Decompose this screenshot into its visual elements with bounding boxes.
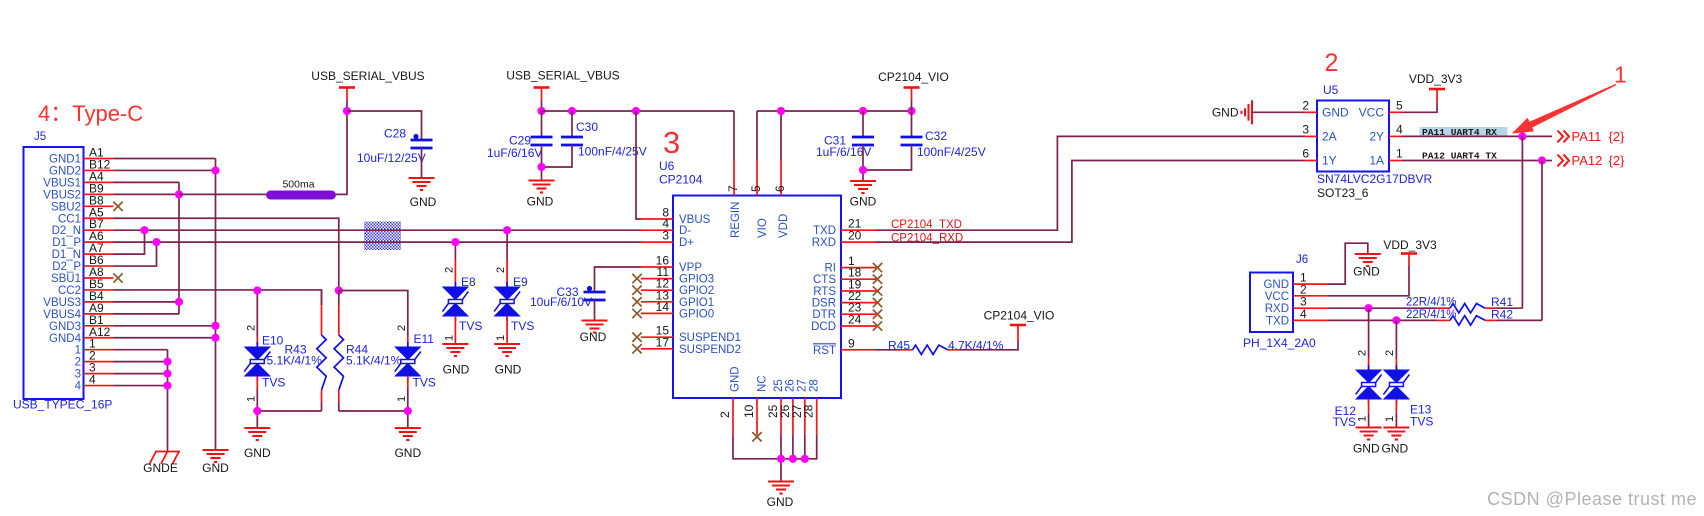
svg-text:GND: GND [394,446,421,460]
resistor R44 5.1K/4/1% [338,291,340,306]
svg-text:10: 10 [742,404,756,418]
svg-text:VCC: VCC [1359,106,1385,120]
junction RXD E12 [1365,304,1373,312]
svg-text:6: 6 [773,185,787,192]
svg-text:D2_N: D2_N [52,225,81,237]
U5 pin 1 1A [1389,160,1402,162]
J5 pin B12 GND2 stub [84,169,114,171]
svg-text:5.1K/4/1%: 5.1K/4/1% [267,354,323,368]
ground symbol under U6 [768,482,794,494]
svg-text:4: 4 [75,381,82,393]
capacitor C33 10uF/6/10V [584,292,606,300]
wire CC2 rail to E10 [256,291,258,337]
svg-text:CP2104_VIO: CP2104_VIO [984,309,1055,323]
capacitor C31 1uF/6/16V [862,111,864,137]
U6 pin 7 REGIN [733,160,735,196]
J6 pin 1 GND [1293,283,1328,285]
U6 pin 21 TXD [841,229,876,231]
U6 pin 1 RI [841,267,876,269]
U5 pin 4 2Y [1389,135,1402,137]
wire VBUS drop to U6 pin 8 [636,111,641,219]
wire C31 C32 bottoms to ground [862,145,864,181]
wire PA12 down to R42 [1541,161,1543,321]
wire CP2104_TXD to U5 pin 3 [876,136,1305,230]
svg-text:1uF/6/16V: 1uF/6/16V [487,146,542,160]
junction CP2104_VIO top [907,107,915,115]
wire J5 shell pin 2 to GNDE vertical [114,361,168,363]
wire U5 pin 1 to PA12 port [1402,160,1552,162]
svg-text:{2}: {2} [1609,153,1626,168]
svg-text:3: 3 [662,229,669,243]
U6 pin 6 VDD [780,160,782,196]
junction B4 VBUS [175,298,183,306]
wire J5 shell pin 4 to GNDE vertical [114,385,168,387]
TVS diode E13 [1395,320,1397,358]
svg-text:22R/4/1%: 22R/4/1% [1406,309,1457,321]
wire CC2 B5 to R43 [114,290,322,305]
svg-text:TVS: TVS [262,376,285,390]
J6 pin 3 RXD [1293,307,1328,309]
svg-text:CP2104_VIO: CP2104_VIO [878,70,949,84]
svg-text:TVS: TVS [459,319,482,333]
svg-text:7: 7 [726,185,740,192]
svg-text:D1_N: D1_N [52,249,81,261]
wire VPP to C33 [612,266,641,268]
U6 pin 26 26 [792,398,794,435]
junction VDD [777,107,785,115]
svg-text:VBUS2: VBUS2 [43,189,81,201]
wire D+ line A6 to U6 pin 3 [114,241,642,243]
svg-text:4: 4 [89,373,96,387]
svg-text:VPP: VPP [679,262,702,274]
svg-text:USB_SERIAL_VBUS: USB_SERIAL_VBUS [506,69,619,83]
svg-text:2: 2 [495,267,507,273]
wire C28 to ground [421,148,423,178]
junction B12 GND [211,166,219,174]
wire PA11 down to R41 [1521,136,1523,308]
no-connect X on U6 pin 10 NC [752,432,761,441]
wire VDD_3V3 to U5 pin 5 [1402,103,1437,112]
svg-text:GND: GND [730,366,742,392]
ground symbol under E8 [442,344,468,356]
svg-text:3: 3 [663,125,680,160]
svg-text:1: 1 [396,396,408,402]
svg-text:14: 14 [656,300,670,314]
svg-text:VBUS4: VBUS4 [43,309,81,321]
TVS diode E9 on D- [506,230,508,260]
svg-text:TVS: TVS [1333,415,1356,429]
svg-text:4: 4 [1396,123,1403,137]
svg-text:GND: GND [580,330,607,344]
svg-text:CSDN @Please trust me: CSDN @Please trust me [1487,489,1697,509]
U6 pin 27 27 [804,398,806,435]
svg-text:C30: C30 [576,120,598,134]
no-connect X on J5 pin A8 SBU1 [113,273,122,282]
svg-text:2: 2 [1302,99,1309,113]
wire GND4 A12 to GND vertical [114,337,216,339]
svg-text:TXD: TXD [1266,315,1289,327]
svg-text:CP2104_TXD: CP2104_TXD [891,219,962,231]
svg-text:D+: D+ [679,237,694,249]
junction TXD E13 [1392,316,1400,324]
svg-text:9: 9 [848,336,855,350]
svg-text:TVS: TVS [413,376,436,390]
wire rail VIO VDD to C32 [757,110,912,112]
wire CC1 rail to E11 [339,291,408,337]
svg-text:17: 17 [656,335,670,349]
wire VBUS3 B4 to VBUS vertical [114,301,180,303]
svg-text:RST: RST [813,345,836,357]
svg-text:28: 28 [802,404,816,418]
junction C31 top [859,107,867,115]
capacitor C32 100nF/4/25V [911,111,913,137]
svg-text:RI: RI [825,263,837,275]
wire CP2104_RXD to U5 pin 6 [876,161,1305,243]
annotation arrow 1 [1512,84,1617,134]
IC U6 CP2104 body [673,196,841,399]
svg-text:GPIO3: GPIO3 [679,274,714,286]
svg-text:J5: J5 [34,131,46,143]
svg-text:10uF/6/10V: 10uF/6/10V [530,295,592,309]
svg-text:PA11 UART4 RX: PA11 UART4 RX [1422,127,1497,138]
wire GND3 B1 to GND vertical [114,325,216,327]
J5 pin 2 2 stub [84,361,114,363]
U6 pin 15 SUSPEND1 [641,336,673,338]
J5 pin B1 GND3 stub [84,325,114,327]
wire U6 ground pins rail [733,435,817,459]
U6 pin 13 GPIO1 [641,301,673,303]
port PA11 [1558,131,1570,143]
svg-text:J6: J6 [1296,254,1308,266]
junction E10 bottom [253,407,261,415]
svg-text:3: 3 [75,369,81,381]
svg-text:C32: C32 [925,129,947,143]
wire D- line B7 to U6 pin 4 [114,229,642,231]
svg-text:1: 1 [246,396,258,402]
svg-text:1Y: 1Y [1322,154,1337,168]
svg-text:2: 2 [1325,49,1339,77]
svg-text:CC1: CC1 [58,213,81,225]
svg-text:VCC: VCC [1265,291,1289,303]
capacitor C29 1uF/6/16V [541,111,543,137]
wire CC1 A5 to R44/E11 rail [114,218,339,290]
resistor R43 5.1K/4/1% [321,290,323,305]
svg-text:PA12: PA12 [1572,153,1603,168]
svg-text:DCD: DCD [811,321,836,333]
connector J5 USB Type-C body [24,147,84,399]
svg-text:E9: E9 [513,275,528,289]
svg-text:SN74LVC2G17DBVR: SN74LVC2G17DBVR [1317,172,1433,186]
junction D- jog [140,226,148,234]
svg-text:REGIN: REGIN [730,202,742,238]
svg-text:D-: D- [679,225,691,237]
svg-text:6: 6 [1302,147,1309,161]
J5 pin A7 D1_N stub [84,253,114,255]
U6 RST overline [813,343,836,345]
J5 pin B9 VBUS2 stub [84,193,114,195]
J5 pin A4 VBUS1 stub [84,181,114,183]
wire C33 to ground [594,300,596,321]
svg-text:E11: E11 [414,332,435,346]
svg-text:5.1K/4/1%: 5.1K/4/1% [346,354,402,368]
ground symbol under E11 [395,428,421,440]
svg-text:2: 2 [246,325,258,331]
J6 pin 2 VCC [1293,295,1328,297]
svg-text:SUSPEND1: SUSPEND1 [679,332,741,344]
svg-text:GND: GND [202,461,229,475]
wire C29 C30 bottoms to ground [541,145,543,181]
U6 pin 11 GPIO3 [641,278,673,280]
svg-text:2: 2 [1357,350,1369,356]
svg-text:GND: GND [443,363,470,377]
svg-text:GND4: GND4 [49,333,82,345]
svg-text:CTS: CTS [813,274,836,286]
svg-text:VDD_3V3: VDD_3V3 [1383,238,1437,252]
wire VBUS to ferrite bead [179,193,266,195]
svg-text:RXD: RXD [1265,303,1289,315]
svg-text:C28: C28 [384,127,406,141]
junction pin25 rail [777,455,785,463]
svg-text:VBUS1: VBUS1 [43,177,81,189]
svg-text:VDD: VDD [778,214,790,238]
wire J6 pin3 to R41 [1328,307,1437,309]
junction PA12 [1538,156,1546,164]
svg-text:28: 28 [809,379,821,392]
wire J6 pin1 to ground [1328,243,1368,284]
svg-text:GNDE: GNDE [143,461,178,475]
wire ferrite bead to USB_SERIAL_VBUS [336,111,347,194]
U6 pin 9 RST [841,349,876,351]
svg-text:2: 2 [444,267,456,273]
J5 pin B4 VBUS3 stub [84,301,114,303]
svg-text:27: 27 [797,379,809,392]
wire VBUS2 B9 to VBUS vertical [114,193,180,195]
svg-text:CP2104: CP2104 [659,173,703,187]
svg-text:22R/4/1%: 22R/4/1% [1406,297,1457,309]
svg-text:GND: GND [527,195,554,209]
junction E11 bottom [404,407,412,415]
wire U5 pin 4 to PA11 port [1402,135,1552,137]
J5 pin B6 D2_P stub [84,265,114,267]
svg-text:4: 4 [1300,307,1307,321]
wire R44 E11 bottom rail [339,410,408,412]
svg-text:100nF/4/25V: 100nF/4/25V [917,145,986,159]
svg-text:GND1: GND1 [49,154,81,166]
wire GNDE vertical [167,350,169,452]
U6 pin 28 28 [816,398,818,435]
ground symbol under C28 [409,178,435,190]
connector J6 body [1250,273,1293,333]
svg-text:VBUS3: VBUS3 [43,297,81,309]
wire VBUS vertical bus [178,182,180,313]
svg-text:GPIO0: GPIO0 [679,308,714,320]
wire rail to C28 [347,111,422,140]
svg-text:R45: R45 [888,339,910,353]
ferrite bead FB 500ma [266,191,336,200]
svg-text:SBU2: SBU2 [51,201,81,213]
svg-text:USB_SERIAL_VBUS: USB_SERIAL_VBUS [311,69,424,83]
svg-text:1: 1 [1614,62,1627,88]
wire J5 shell pin 1 to GNDE vertical [114,349,168,351]
junction C30 top [568,107,576,115]
svg-text:GND: GND [1353,265,1380,279]
svg-text:PA12 UART4 TX: PA12 UART4 TX [1422,151,1497,162]
wire R41 to PA11 vertical [1497,307,1522,309]
U6 pin 10 NC [756,398,758,435]
junction E10 top [253,286,261,294]
svg-text:E10: E10 [262,334,284,348]
U6 pin 19 RTS [841,290,876,292]
svg-text:20: 20 [848,229,862,243]
capacitor C30 100nF/4/25V [571,111,573,137]
svg-text:SOT23_6: SOT23_6 [1317,186,1369,200]
svg-text:PH_1X4_2A0: PH_1X4_2A0 [1243,336,1316,350]
svg-text:E8: E8 [461,275,476,289]
port PA12 [1558,155,1570,167]
J5 pin 3 3 stub [84,373,114,375]
svg-text:GND: GND [244,446,271,460]
svg-text:25: 25 [773,379,785,392]
TVS diode E12 [1368,308,1370,358]
wire D2_P B6 jog to D+ line [114,242,157,266]
U5 pin 3 2A [1305,135,1317,137]
ground symbol above J6 [1355,254,1381,266]
junction USB_SERIAL_VBUS [343,107,351,115]
U5 pin 2 GND [1305,111,1317,113]
J5 pin A6 D1_P stub [84,241,114,243]
junction shell pin 2 [163,358,171,366]
capacitor C28 10uF/12/25V [411,140,433,148]
wire GND vertical bus [215,159,217,451]
svg-text:5: 5 [749,185,763,192]
wire VBUS4 A9 to VBUS vertical [114,313,180,315]
ground symbol under E12 [1356,428,1382,440]
junction pin26 rail [789,455,797,463]
U6 pin 4 D- [641,229,673,231]
svg-text:TVS: TVS [511,319,534,333]
U6 pin 16 VPP [641,266,673,268]
U6 pin 18 CTS [841,278,876,280]
J5 pin A12 GND4 stub [84,337,114,339]
svg-text:GPIO2: GPIO2 [679,285,714,297]
svg-text:GND: GND [410,195,437,209]
resistor R45 4.7K/4/1% [876,349,900,351]
U6 pin 24 DCD [841,325,876,327]
junction CC1 rail [335,286,343,294]
U6 pin 12 GPIO2 [641,289,673,291]
wire R45 to CP2104_VIO [960,340,1018,350]
J5 pin A5 CC1 stub [84,217,114,219]
svg-text:U6: U6 [659,159,675,173]
TVS diode E10 [256,337,258,348]
junction C29 bottom [537,163,545,171]
U6 pin 5 VIO [756,160,758,196]
svg-text:GPIO1: GPIO1 [679,297,714,309]
svg-text:1: 1 [444,335,456,341]
svg-text:D2_P: D2_P [52,261,81,273]
J5 pin A8 SBU1 stub [84,277,114,279]
svg-text:1: 1 [1384,416,1396,422]
wire VDD_3V3 to J6 pin 2 [1328,266,1409,296]
svg-text:5: 5 [1396,99,1403,113]
svg-text:NC: NC [757,375,769,392]
wire J6 pin4 to R42 [1328,319,1437,321]
svg-text:TVS: TVS [1410,415,1433,429]
svg-text:CC2: CC2 [58,285,81,297]
junction C31 bottom [859,166,867,174]
no-connect X on J5 pin B8 SBU2 [113,202,122,211]
svg-text:GND: GND [1212,106,1239,120]
ground symbol under C31 C32 [850,181,876,193]
junction B1 GND [211,322,219,330]
svg-text:4：Type-C: 4：Type-C [38,101,143,126]
J5 pin B5 CC2 stub [84,289,114,291]
svg-text:1: 1 [1396,147,1403,161]
svg-text:GND: GND [1353,442,1380,456]
svg-text:VBUS: VBUS [679,214,711,226]
wire GND2 B12 to GND vertical [114,169,216,171]
IC U5 SN74LVC2G17DBVR body [1317,101,1389,172]
svg-text:USB_TYPEC_16P: USB_TYPEC_16P [13,398,112,412]
U6 pin 22 DSR [841,302,876,304]
ground symbol under E10 [244,428,270,440]
svg-text:GND: GND [1322,106,1349,120]
U6 pin 23 DTR [841,313,876,315]
U6 pin 25 25 [780,398,782,435]
ground symbol under J5 [203,450,229,462]
junction B9 VBUS [175,190,183,198]
U6 pin 20 RXD [841,241,876,243]
highlight on PA11 UART4 RX [1420,127,1508,136]
U6 pin 3 D+ [641,241,673,243]
wire E10 R43 bottom rail [256,389,258,428]
resistor R42 22R/4/1% [1437,319,1450,321]
U6 pin 14 GPIO0 [641,312,673,314]
wire rail USB_SERIAL_VBUS to REGIN [542,110,735,112]
svg-text:U5: U5 [1323,83,1339,97]
TVS diode E11 [407,337,409,348]
svg-text:2: 2 [75,357,81,369]
svg-text:PA11: PA11 [1572,129,1602,144]
svg-text:RXD: RXD [812,237,836,249]
svg-text:3: 3 [1302,123,1309,137]
common-mode choke hatched area on D+/D- pair [364,222,401,251]
wire J5 shell pin 3 to GNDE vertical [114,373,168,375]
svg-text:2: 2 [1384,350,1396,356]
J6 pin 4 TXD [1293,319,1328,321]
U6 pin 8 VBUS [641,218,673,220]
svg-text:10uF/12/25V: 10uF/12/25V [357,151,426,165]
ground symbol under E13 [1383,428,1409,440]
svg-text:1: 1 [75,345,81,357]
svg-text:VIO: VIO [757,218,769,238]
svg-text:2: 2 [396,325,408,331]
svg-text:2Y: 2Y [1369,130,1384,144]
svg-text:DTR: DTR [812,309,836,321]
svg-text:500ma: 500ma [282,179,314,191]
svg-text:GND3: GND3 [49,321,81,333]
svg-text:SBU1: SBU1 [51,273,81,285]
svg-text:DSR: DSR [812,298,836,310]
junction D+ jog [152,238,160,246]
TVS diode E8 on D+ [454,242,456,260]
svg-text:D1_P: D1_P [52,237,81,249]
svg-text:GND2: GND2 [49,165,81,177]
wire D1_N A7 jog to D- line [114,230,145,254]
svg-text:{2}: {2} [1609,129,1626,144]
junction PA11 [1518,132,1526,140]
ground symbol under C33 [582,321,608,333]
